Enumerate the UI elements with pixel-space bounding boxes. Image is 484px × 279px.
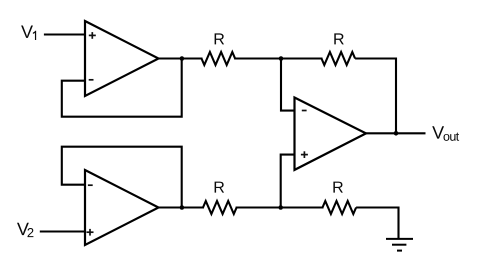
- op-amp U2: [85, 170, 159, 245]
- wire U1 output to R1: [158, 57, 203, 59]
- glyph V of label Vout: [432, 126, 444, 138]
- label R3 value R: [215, 182, 225, 193]
- op-amp U3: [295, 98, 367, 170]
- U1 inverting pin -: [89, 79, 94, 81]
- wire R4 to ground: [356, 208, 398, 239]
- wire R1 to R2 (node A): [234, 57, 322, 59]
- junction node B: [278, 205, 283, 210]
- wire node B to U3 noninverting input: [281, 155, 295, 208]
- glyph o of subscript out: [444, 134, 450, 141]
- junction node A: [279, 56, 284, 61]
- wire U1 feedback loop: [62, 59, 182, 117]
- junction U1 output node: [180, 56, 185, 61]
- junction U2 output node: [180, 205, 185, 210]
- U3 noninverting pin +: [301, 151, 308, 158]
- wire V2 to U2 noninverting input: [40, 230, 86, 232]
- wire V1 to U1 noninverting input: [44, 33, 86, 35]
- label R4 value R: [333, 182, 343, 193]
- label R2 value R: [334, 33, 344, 44]
- op-amp U1: [85, 21, 159, 96]
- glyph 2 subscript of label V2: [28, 228, 34, 237]
- ground: [386, 239, 413, 251]
- wire U2 output to R3: [158, 206, 205, 208]
- wire node A to U3 inverting input: [281, 59, 295, 111]
- glyph V of label V1: [21, 26, 33, 38]
- U2 inverting pin -: [88, 184, 93, 186]
- resistor R1: [202, 52, 236, 65]
- wire R2 to output node: [355, 59, 396, 134]
- junction output node: [394, 131, 399, 136]
- glyph 1 subscript of label V1: [33, 31, 36, 40]
- wire R3 to R4 (node B): [236, 206, 324, 208]
- U2 noninverting pin +: [87, 229, 94, 236]
- resistor R4: [323, 201, 357, 214]
- glyph t of subscript out: [456, 133, 459, 141]
- U1 noninverting pin +: [89, 32, 96, 39]
- wire U3 output to Vout: [365, 132, 426, 134]
- glyph V of label V2: [17, 223, 29, 235]
- label R1 value R: [215, 33, 225, 44]
- U3 inverting pin -: [302, 110, 307, 112]
- wire U2 feedback loop: [62, 147, 182, 208]
- glyph u of subscript out: [450, 134, 455, 141]
- resistor R3: [203, 201, 237, 214]
- resistor R2: [322, 52, 356, 65]
